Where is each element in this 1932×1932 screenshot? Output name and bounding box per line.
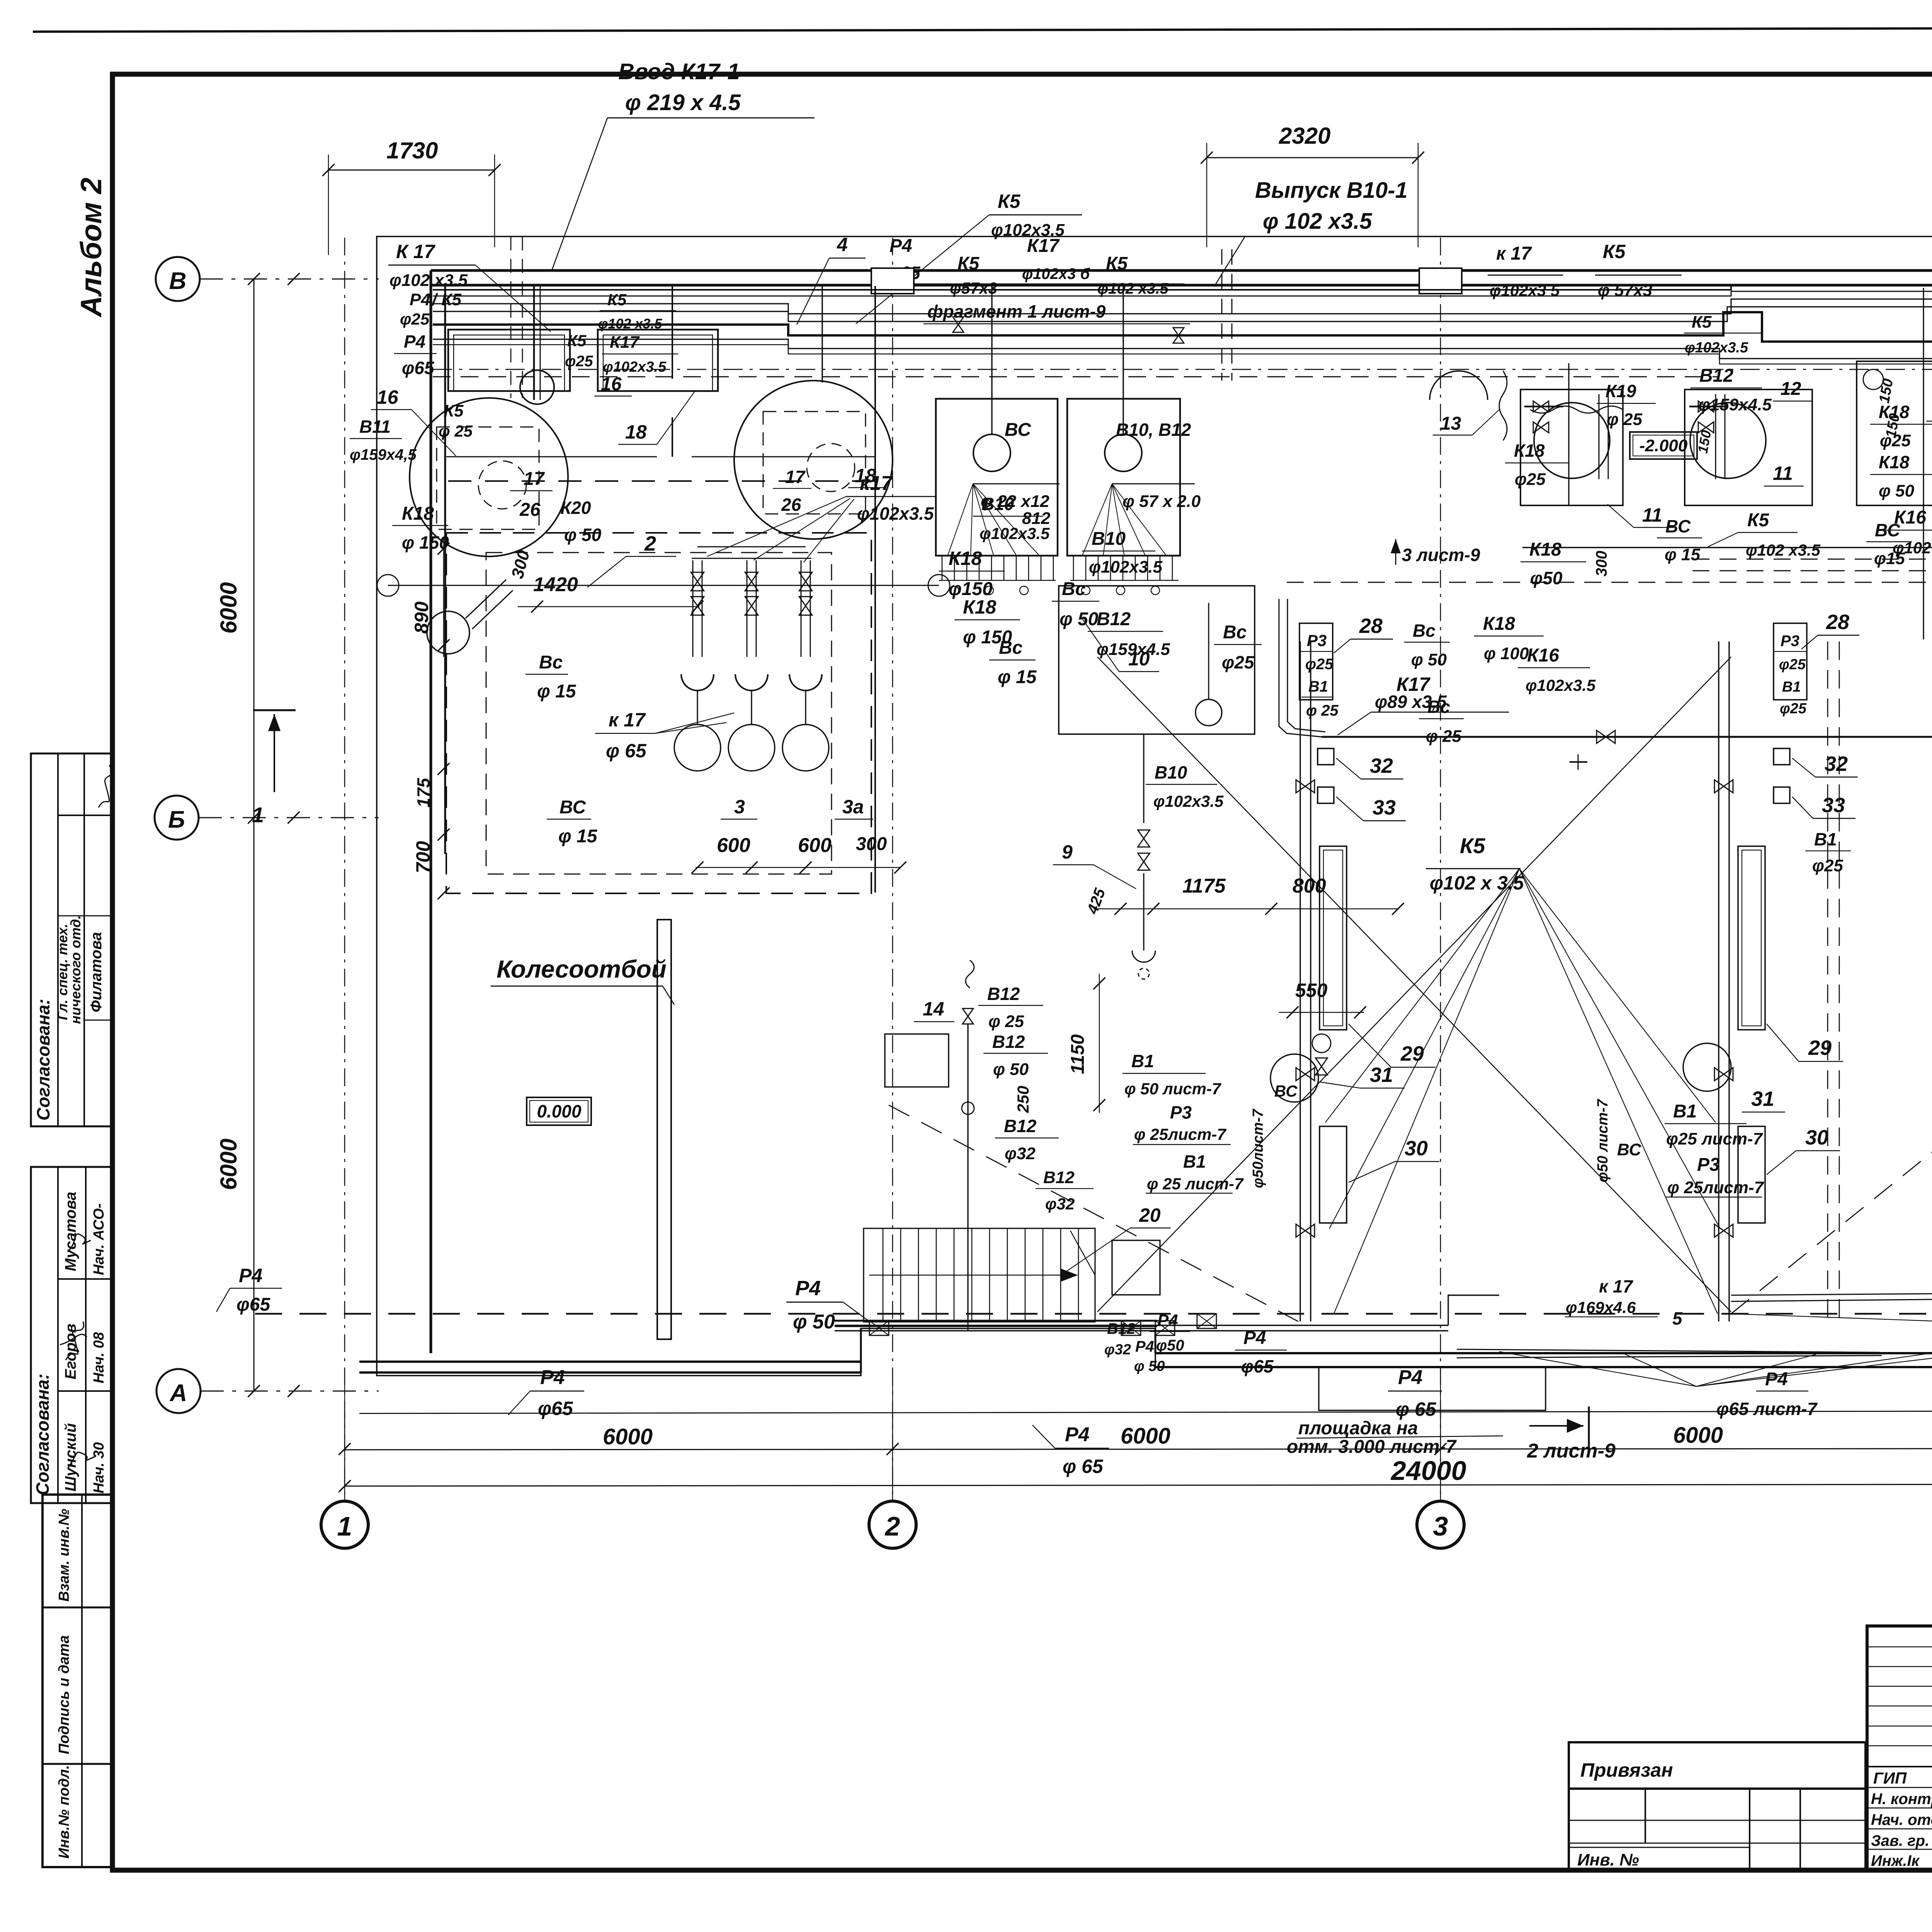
diagonal dashed lower-left: [889, 1105, 1298, 1321]
svg-text:11: 11: [1773, 463, 1793, 484]
svg-text:3а: 3а: [842, 796, 864, 818]
under room dashed runs: [1692, 559, 1932, 560]
K20 f50 dashed line across tanks: [448, 480, 875, 482]
pipe run K17b: [433, 277, 1932, 296]
svg-text:φ102х3.5: φ102х3.5: [1089, 558, 1163, 577]
pipe run K5 102x3.5 main: [433, 312, 1932, 352]
dimension 1730: [328, 170, 495, 171]
svg-text:φ 25 лист-7: φ 25 лист-7: [1147, 1175, 1244, 1193]
svg-text:φ32: φ32: [1005, 1144, 1036, 1163]
svg-text:В1: В1: [1673, 1101, 1697, 1122]
svg-text:В1: В1: [1814, 829, 1837, 849]
svg-text:Шунский: Шунский: [62, 1423, 79, 1492]
svg-text:0.000: 0.000: [537, 1101, 582, 1121]
svg-text:2320: 2320: [1279, 123, 1330, 149]
svg-text:φ159х4,5: φ159х4,5: [350, 446, 417, 463]
column circle 2: [892, 1412, 893, 1501]
svg-text:Р4: Р4: [795, 1277, 821, 1300]
svg-text:К18: К18: [949, 548, 982, 569]
partition wall 16/17: [672, 286, 673, 379]
room 2 dashed outer: [446, 533, 871, 893]
room 12 riser rings: [1863, 369, 1883, 389]
svg-text:нического отд.: нического отд.: [68, 915, 83, 1024]
vertical B12 pipe at stairs: [968, 1323, 969, 1331]
column circle 3: [1440, 1412, 1441, 1501]
approval table B: [31, 1167, 114, 1503]
svg-text:φ 25: φ 25: [1607, 410, 1643, 429]
comb teeth B10: [1073, 556, 1074, 580]
svg-text:Альбом 2: Альбом 2: [75, 178, 108, 318]
room 18 inner rect: [598, 330, 718, 391]
svg-text:9: 9: [1062, 841, 1073, 863]
svg-text:К 17: К 17: [396, 241, 435, 262]
svg-text:В12: В12: [1004, 1116, 1037, 1136]
svg-text:18: 18: [625, 421, 647, 443]
svg-text:13: 13: [1440, 413, 1461, 434]
svg-text:К18: К18: [1483, 614, 1515, 634]
svg-text:ВС: ВС: [1617, 1140, 1642, 1159]
svg-text:φ 25лист-7: φ 25лист-7: [1134, 1125, 1226, 1143]
svg-text:к 17: к 17: [1599, 1276, 1634, 1296]
pit 30 left: [1320, 1126, 1347, 1223]
privyazan block: [1569, 1742, 1866, 1870]
pipe run K16: [433, 339, 1932, 359]
svg-text:φ102 х3.5: φ102 х3.5: [1746, 541, 1821, 559]
valve pair room11 right: [1698, 401, 1714, 412]
pipe axis dash-dot run: [433, 369, 1932, 370]
pipe run B12 159x4.5: [433, 307, 1932, 333]
svg-text:Взам. инв.№: Взам. инв.№: [56, 1509, 72, 1602]
svg-text:6000: 6000: [1121, 1423, 1170, 1449]
svg-text:Подпись и дата: Подпись и дата: [56, 1635, 72, 1754]
svg-text:600: 600: [798, 834, 832, 857]
svg-text:Согласована:: Согласована:: [32, 1374, 53, 1495]
room 16 inner rect: [448, 330, 570, 391]
svg-text:В1: В1: [1131, 1051, 1154, 1071]
tank 17 circle left: [410, 398, 568, 556]
diagonal dashed to room7: [1731, 958, 1932, 1314]
room 10 rect: [1059, 586, 1255, 734]
svg-text:16: 16: [601, 374, 622, 395]
svg-text:К18: К18: [1514, 440, 1545, 461]
svg-text:φ102 х3.5: φ102 х3.5: [1097, 280, 1169, 297]
building bottom wall band: [359, 1361, 861, 1363]
svg-text:φ 25: φ 25: [988, 1012, 1024, 1031]
P4 solid pipe run: [835, 1325, 1448, 1326]
svg-text:В: В: [169, 268, 187, 294]
svg-text:К17: К17: [1027, 236, 1060, 256]
outfall dashed drop B10-1: [1221, 249, 1223, 381]
svg-text:φ 25: φ 25: [1306, 702, 1339, 719]
svg-text:Нач. отд.: Нач. отд.: [1871, 1811, 1932, 1828]
svg-text:6000: 6000: [216, 1139, 241, 1190]
tank 17 circle right: [734, 381, 893, 539]
svg-text:3 лист-9: 3 лист-9: [1402, 545, 1480, 565]
svg-text:Инв. №: Инв. №: [1577, 1850, 1639, 1869]
svg-text:В11: В11: [359, 417, 391, 437]
svg-text:2: 2: [884, 1511, 900, 1541]
svg-text:/ К5: / К5: [431, 290, 461, 309]
P3 stand left: [1299, 623, 1333, 700]
svg-text:φ 25лист-7: φ 25лист-7: [1667, 1178, 1765, 1197]
axis А circle: [156, 1369, 201, 1413]
hose header pipe: [692, 558, 811, 559]
svg-text:16: 16: [377, 386, 399, 408]
P3 stand right: [1774, 623, 1807, 700]
svg-text:φ50лист-7: φ50лист-7: [1250, 1109, 1266, 1188]
riser pair room 11 left: [1568, 363, 1569, 506]
svg-text:отм. 3.000 лист-7: отм. 3.000 лист-7: [1287, 1437, 1457, 1457]
svg-text:φ 102 х3.5: φ 102 х3.5: [1263, 209, 1372, 234]
svg-text:φ65: φ65: [236, 1294, 270, 1315]
svg-text:φ 100: φ 100: [1484, 644, 1529, 663]
svg-text:К5: К5: [1603, 241, 1626, 262]
svg-text:φ159х4.5: φ159х4.5: [1698, 395, 1772, 414]
building top wall band: [431, 269, 1932, 272]
svg-text:φ32: φ32: [1104, 1342, 1131, 1358]
svg-text:φ102 х3.5: φ102 х3.5: [389, 271, 468, 290]
svg-text:1: 1: [337, 1511, 352, 1541]
level mark 0.000 left: [527, 1097, 591, 1125]
wheel guard: [657, 920, 671, 1339]
svg-text:Инв.№ подл.: Инв.№ подл.: [56, 1765, 72, 1859]
bay 1 rails: [1299, 641, 1301, 1321]
svg-text:300: 300: [1593, 551, 1610, 577]
partition shelf: [446, 456, 657, 457]
svg-text:φ25: φ25: [1515, 470, 1546, 489]
svg-text:Вс: Вс: [999, 638, 1022, 658]
svg-text:33: 33: [1822, 794, 1845, 817]
svg-text:17: 17: [785, 467, 806, 487]
trench right long lines: [1731, 1291, 1932, 1295]
svg-text:Привязан: Привязан: [1580, 1759, 1673, 1781]
svg-text:φ65: φ65: [402, 358, 435, 378]
svg-text:3: 3: [734, 796, 745, 818]
riser to BC tank: [991, 285, 992, 435]
svg-text:Нач. 08: Нач. 08: [91, 1332, 107, 1383]
svg-text:26: 26: [519, 500, 541, 520]
svg-text:φ57х3: φ57х3: [950, 279, 997, 297]
svg-text:ГИП: ГИП: [1873, 1769, 1907, 1787]
svg-text:φ25 лист-7: φ25 лист-7: [1666, 1129, 1764, 1148]
dashed axis pipes near col 4: [1827, 641, 1828, 1321]
room 11 right circle: [1690, 403, 1766, 478]
svg-text:26: 26: [781, 495, 801, 515]
building outer wall outline: [377, 236, 1932, 1376]
svg-text:К18: К18: [1879, 452, 1910, 472]
svg-text:В12: В12: [992, 1032, 1025, 1052]
valve boxes on P4: [869, 1321, 889, 1335]
dimension 2320: [1207, 157, 1418, 158]
svg-text:600: 600: [717, 834, 750, 857]
svg-text:-2.000: -2.000: [1639, 436, 1688, 455]
svg-text:Р4: Р4: [410, 290, 430, 309]
projection line below building: [359, 1410, 1932, 1413]
partition right of tanks: [874, 286, 876, 893]
svg-text:В1: В1: [1308, 678, 1328, 695]
comb teeth BC: [942, 556, 943, 580]
pipe run extra thin: [433, 345, 1932, 364]
svg-text:φ 150: φ 150: [402, 532, 449, 553]
svg-text:300: 300: [856, 834, 887, 854]
bottom wall at stairs with P4 pipe: [835, 1320, 1157, 1322]
svg-text:800: 800: [1293, 875, 1326, 897]
riser to tank 1: [533, 285, 535, 400]
equipment BC tank rect: [936, 399, 1058, 556]
svg-text:Мусатова: Мусатова: [62, 1192, 79, 1271]
bay 2 rails: [1718, 641, 1719, 1321]
svg-text:φ65: φ65: [1241, 1356, 1274, 1376]
svg-text:В10, В12: В10, В12: [1116, 420, 1191, 440]
svg-text:φ102х3.5: φ102х3.5: [857, 503, 934, 524]
svg-text:φ 50: φ 50: [993, 1060, 1029, 1079]
left dimension line 6000+6000: [253, 279, 255, 1391]
level mark -2.000: [1630, 432, 1697, 459]
top labels shared underline: [886, 284, 1184, 285]
column grid line 1: [344, 238, 345, 1501]
riser mid room10: [1208, 603, 1209, 699]
svg-text:Б: Б: [168, 806, 185, 833]
svg-text:К16: К16: [1527, 645, 1559, 666]
svg-text:Вс: Вс: [1413, 621, 1435, 641]
squares 32 33 right: [1774, 748, 1790, 765]
svg-text:Нач. 30: Нач. 30: [91, 1442, 107, 1493]
svg-text:К5: К5: [444, 401, 464, 420]
svg-text:Р4: Р4: [1135, 1338, 1154, 1355]
svg-text:φ102х3.5: φ102х3.5: [603, 359, 667, 375]
bottom right dashed diag leaders: [1731, 1314, 1932, 1325]
svg-text:Зав. гр.: Зав. гр.: [1871, 1832, 1929, 1849]
svg-text:К5: К5: [998, 190, 1021, 212]
title name rows: [1867, 1787, 1932, 1788]
svg-text:φ 25: φ 25: [439, 422, 473, 440]
svg-text:В1: В1: [1183, 1151, 1206, 1172]
dimension row 6000 x4: [345, 1448, 1932, 1450]
svg-text:φ25: φ25: [1779, 656, 1806, 673]
svg-text:φ25: φ25: [1305, 656, 1333, 673]
svg-text:φ102х3 б: φ102х3 б: [1022, 265, 1090, 282]
dashed drop vvod K17: [510, 236, 512, 398]
svg-text:φ 50 лист-7: φ 50 лист-7: [1124, 1080, 1221, 1098]
svg-text:Р4: Р4: [239, 1265, 262, 1286]
small circle K18 150: [427, 611, 469, 654]
svg-text:φ 25: φ 25: [1426, 727, 1462, 746]
svg-text:6000: 6000: [1673, 1423, 1723, 1448]
svg-text:Р4: Р4: [540, 1366, 565, 1389]
svg-text:Ввод К17-1: Ввод К17-1: [618, 59, 740, 84]
svg-text:К5: К5: [607, 291, 627, 309]
svg-text:33: 33: [1372, 796, 1396, 819]
svg-text:Н. контр.: Н. контр.: [1871, 1791, 1932, 1808]
svg-text:К18: К18: [1529, 539, 1561, 560]
pit 30 right: [1738, 1126, 1765, 1223]
svg-text:20: 20: [1139, 1204, 1161, 1226]
svg-text:В10: В10: [1092, 529, 1126, 549]
svg-text:фрагмент 1 лист-9: фрагмент 1 лист-9: [927, 301, 1106, 321]
svg-text:К18: К18: [402, 503, 434, 524]
svg-text:φ 219 х 4.5: φ 219 х 4.5: [625, 90, 741, 115]
svg-text:А: А: [169, 1380, 187, 1406]
svg-text:2: 2: [644, 532, 656, 555]
washing hose stand 3 pcs: [692, 560, 694, 657]
svg-text:φ102х3.5: φ102х3.5: [1526, 676, 1596, 694]
svg-text:6000: 6000: [216, 582, 241, 634]
svg-text:К5: К5: [1460, 833, 1485, 858]
svg-text:Р4: Р4: [889, 236, 912, 256]
extension lines below building: [344, 1368, 345, 1430]
svg-text:φ 50: φ 50: [793, 1311, 835, 1333]
stairs: [864, 1228, 1095, 1322]
svg-text:φ 50: φ 50: [564, 525, 602, 545]
circle 31 right: [1683, 1043, 1731, 1091]
svg-text:К18: К18: [963, 596, 997, 618]
svg-text:φ 15: φ 15: [998, 667, 1037, 687]
svg-text:Филатова: Филатова: [88, 932, 105, 1012]
svg-text:К19: К19: [1605, 381, 1636, 401]
svg-text:φ 15: φ 15: [1665, 545, 1701, 564]
svg-text:φ 50: φ 50: [1879, 481, 1915, 500]
squiggle K16 hose: [1499, 371, 1507, 440]
svg-text:1730: 1730: [386, 138, 438, 163]
P4 dashed main line: [255, 1313, 1932, 1315]
svg-text:Вс: Вс: [539, 652, 563, 673]
section 2 list-9 bottom mark: [1529, 1425, 1583, 1427]
comb symbols row: [950, 586, 959, 595]
half circle 13: [1430, 371, 1488, 400]
svg-text:17: 17: [524, 469, 545, 489]
bay valves: [1296, 780, 1315, 793]
room 11 left circle: [1534, 403, 1610, 478]
svg-text:1175: 1175: [1182, 875, 1226, 897]
valve pair room11 left: [1533, 401, 1549, 412]
svg-text:11: 11: [1642, 504, 1662, 526]
svg-text:250: 250: [1014, 1086, 1032, 1113]
svg-text:Р4: Р4: [1398, 1366, 1423, 1389]
svg-text:Егоров: Егоров: [62, 1324, 79, 1380]
gost margin table: [43, 1495, 113, 1867]
svg-text:890: 890: [411, 601, 432, 634]
svg-text:К16: К16: [1894, 507, 1926, 528]
svg-text:φ32: φ32: [1045, 1195, 1075, 1213]
circle 31 left: [1270, 1054, 1318, 1102]
svg-text:φ 50: φ 50: [1060, 609, 1099, 629]
svg-text:φ65: φ65: [538, 1398, 573, 1419]
svg-text:31: 31: [1751, 1087, 1774, 1111]
svg-text:700: 700: [412, 841, 434, 873]
dimension row 24000: [345, 1484, 1932, 1486]
svg-text:Вс: Вс: [1223, 622, 1247, 643]
svg-text:Согласована:: Согласована:: [33, 999, 53, 1121]
svg-text:φ 65: φ 65: [1063, 1456, 1104, 1477]
svg-text:Р4: Р4: [1065, 1423, 1090, 1446]
svg-text:14: 14: [923, 998, 944, 1020]
title small table rows upper: [1867, 1646, 1932, 1648]
svg-text:Вс: Вс: [1062, 579, 1085, 599]
svg-text:30: 30: [1805, 1126, 1828, 1149]
svg-text:1150: 1150: [1068, 1034, 1088, 1074]
pilaster top axis 3: [1419, 268, 1462, 294]
svg-text:ВС: ВС: [560, 797, 586, 818]
svg-text:24000: 24000: [1390, 1456, 1466, 1486]
equipment B10 B12 tank rect: [1067, 399, 1180, 556]
room 11 right rect: [1685, 389, 1812, 505]
svg-text:В10: В10: [1155, 762, 1187, 782]
svg-text:3: 3: [1433, 1511, 1448, 1541]
rect 20 by stairs: [1112, 1240, 1160, 1295]
P4 trench lines bottom right: [1457, 1349, 1880, 1352]
svg-text:площадка на: площадка на: [1298, 1418, 1418, 1439]
svg-text:Р4: Р4: [1765, 1369, 1788, 1389]
riser to B10 tank: [1122, 285, 1124, 435]
svg-text:Р3: Р3: [1781, 633, 1799, 650]
bottom platform protrusion: [1319, 1367, 1546, 1410]
svg-text:φ 15: φ 15: [537, 681, 577, 702]
svg-text:К17: К17: [610, 333, 640, 352]
svg-text:Р4: Р4: [1243, 1328, 1266, 1348]
svg-text:29: 29: [1400, 1042, 1424, 1065]
room 2 dashed inner: [486, 553, 832, 874]
svg-text:φ50 лист-7: φ50 лист-7: [1595, 1099, 1611, 1182]
svg-text:812: 812: [1022, 509, 1051, 528]
svg-text:к 17: к 17: [609, 709, 646, 731]
svg-text:Вс: Вс: [1427, 697, 1450, 717]
K17 f89 line: [1321, 736, 1932, 738]
wash box 14: [885, 1034, 949, 1087]
pilaster top axis 2: [871, 268, 914, 294]
svg-text:В1: В1: [1782, 679, 1801, 695]
svg-text:Колесоотбой: Колесоотбой: [497, 955, 667, 983]
title block outer: [1867, 1626, 1932, 1870]
svg-text:Инж.Iк: Инж.Iк: [1871, 1852, 1920, 1869]
squares 32 33 left: [1318, 748, 1334, 765]
B11 line f100: [388, 585, 939, 586]
svg-text:1: 1: [252, 803, 264, 827]
riser to tank 2: [821, 285, 823, 383]
svg-text:Р4: Р4: [404, 332, 425, 352]
approval table A: [31, 753, 112, 1126]
svg-text:φ 65: φ 65: [1396, 1398, 1437, 1420]
axis Б circle: [155, 796, 199, 840]
svg-text:2 лист-9: 2 лист-9: [1527, 1440, 1616, 1462]
svg-text:ВС: ВС: [1005, 420, 1031, 440]
pit 29 left: [1320, 846, 1347, 1030]
svg-text:К5: К5: [1747, 510, 1770, 531]
svg-text:к17: к17: [860, 472, 893, 495]
column circle 1: [344, 1412, 345, 1501]
building left wall band: [430, 270, 432, 1353]
pit 29 right: [1738, 846, 1765, 1030]
svg-text:φ 57 х 2.0: φ 57 х 2.0: [1122, 492, 1201, 511]
room 11 left rect: [1520, 389, 1623, 505]
svg-text:Выпуск В10-1: Выпуск В10-1: [1255, 178, 1408, 203]
svg-text:φ 50: φ 50: [1134, 1358, 1165, 1374]
svg-text:φ25: φ25: [1222, 652, 1255, 672]
svg-text:φ 65: φ 65: [606, 740, 647, 762]
svg-text:1420: 1420: [533, 573, 578, 596]
svg-text:φ25: φ25: [400, 310, 430, 328]
big diagonal cross: [1097, 657, 1731, 1312]
pipe run BC dashed: [433, 376, 1719, 378]
svg-text:6000: 6000: [603, 1424, 653, 1449]
svg-text:ВС: ВС: [1665, 516, 1691, 536]
svg-text:К20: К20: [560, 498, 591, 518]
under room solid run: [1522, 547, 1932, 548]
section 1 left mark: [253, 709, 296, 711]
svg-text:30: 30: [1405, 1137, 1428, 1160]
svg-text:28: 28: [1359, 614, 1383, 638]
svg-text:В10: В10: [981, 494, 1014, 514]
axis B circle: [156, 257, 200, 301]
